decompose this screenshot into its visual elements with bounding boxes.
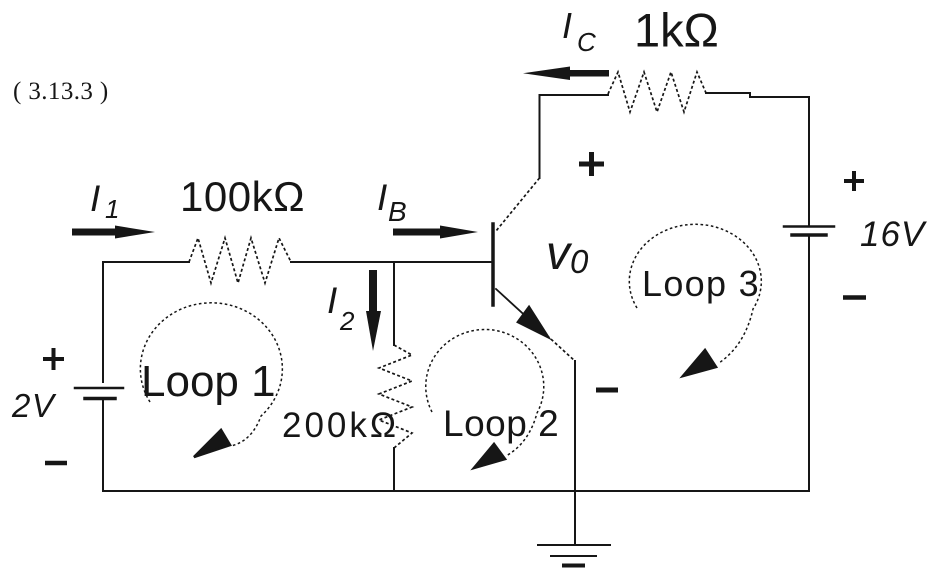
svg-text:I: I: [90, 178, 100, 219]
svg-text:1: 1: [105, 194, 119, 224]
svg-text:I: I: [377, 177, 387, 218]
svg-text:v: v: [546, 227, 573, 280]
svg-text:B: B: [388, 196, 407, 227]
svg-text:Loop 2: Loop 2: [443, 403, 559, 444]
svg-text:I: I: [562, 5, 572, 46]
svg-text:16V: 16V: [860, 215, 928, 254]
svg-text:0: 0: [570, 243, 589, 280]
svg-text:2V: 2V: [11, 387, 57, 424]
svg-text:100kΩ: 100kΩ: [180, 173, 305, 220]
svg-text:200kΩ: 200kΩ: [282, 406, 399, 445]
svg-text:2: 2: [339, 306, 355, 336]
svg-text:I: I: [327, 280, 337, 321]
svg-text:Loop 1: Loop 1: [141, 357, 276, 406]
svg-text:C: C: [577, 27, 596, 57]
svg-text:Loop 3: Loop 3: [642, 263, 760, 304]
svg-text:1kΩ: 1kΩ: [634, 4, 719, 57]
svg-text:( 3.13.3 ): ( 3.13.3 ): [13, 78, 109, 105]
